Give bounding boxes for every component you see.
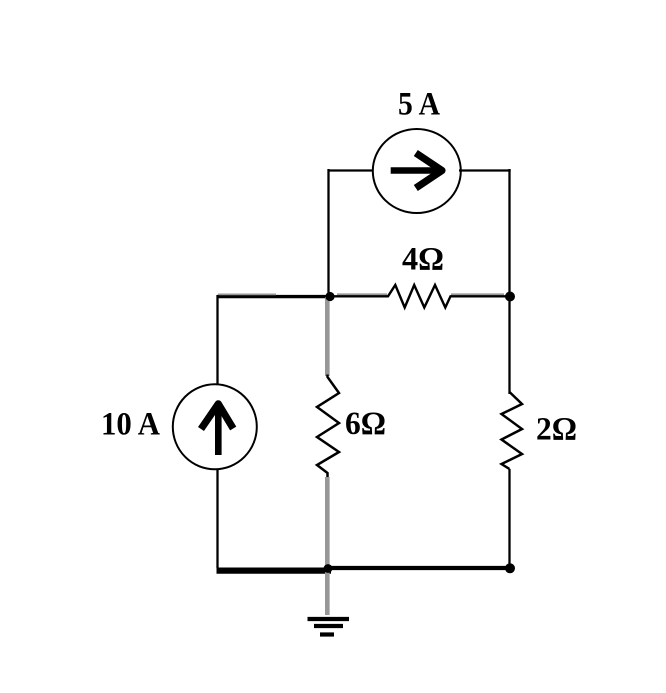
node A junction dot bbox=[325, 292, 334, 301]
resistor R1 (4 ohm) with leads bbox=[332, 285, 507, 308]
wire: 5A source to top-right corner bbox=[459, 169, 511, 171]
node B junction dot bbox=[505, 292, 515, 302]
wire: 2-ohm top lead bbox=[508, 296, 510, 394]
wire: gray riser node A down to 6-ohm resistor bbox=[325, 297, 330, 376]
wire: left vertical of 5A loop (node A up) bbox=[327, 169, 329, 296]
svg-text:2Ω: 2Ω bbox=[536, 412, 577, 448]
wire: top horizontal from 10A branch corner to node A bbox=[217, 295, 331, 298]
svg-text:4Ω: 4Ω bbox=[402, 242, 444, 278]
current source I1 (10 A) circle bbox=[173, 384, 257, 469]
node dot bottom right bbox=[505, 563, 515, 573]
node dot bottom center bbox=[324, 564, 333, 573]
current source I2 (5 A) circle bbox=[373, 129, 461, 213]
wire: right vertical down to node B bbox=[508, 169, 510, 296]
svg-text:6Ω: 6Ω bbox=[345, 406, 386, 442]
resistor R3 (2 ohm) zigzag bbox=[502, 392, 523, 469]
svg-text:5 A: 5 A bbox=[398, 87, 440, 123]
wire: top-left horizontal into 5A source bbox=[328, 169, 376, 171]
wire: gray overlay on 4-ohm branch bbox=[337, 293, 387, 295]
wire: 10A source bottom lead bbox=[216, 469, 218, 568]
svg-text:10 A: 10 A bbox=[101, 407, 160, 443]
wire: gray line from 6-ohm bottom to ground bbox=[325, 477, 330, 615]
wire: gray overlay on top horizontal bbox=[218, 293, 276, 295]
wire: 2-ohm bottom lead bbox=[508, 469, 510, 568]
resistor R2 (6 ohm) zigzag bbox=[317, 375, 339, 478]
wire: 10A source top lead bbox=[216, 295, 218, 385]
bottom wire (ground bus) bbox=[217, 567, 332, 573]
arrow of 5A source bbox=[391, 153, 442, 188]
arrow of 10A source bbox=[201, 404, 233, 455]
ground symbol bbox=[308, 619, 350, 635]
